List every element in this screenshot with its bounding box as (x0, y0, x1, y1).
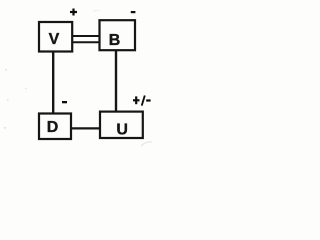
wire D to U (71, 127, 100, 129)
svg-text:D: D (47, 119, 59, 136)
block V (39, 22, 72, 52)
double wire V to B (upper) (72, 35, 100, 37)
plus-minus label at U (133, 95, 151, 106)
double wire V to B (lower) (72, 41, 100, 43)
svg-text:B: B (109, 32, 121, 49)
block D (39, 114, 71, 140)
svg-text:V: V (49, 31, 60, 48)
minus label at B (131, 11, 136, 13)
minus label at D (62, 101, 67, 103)
wire B to U (115, 50, 117, 111)
block B (100, 20, 136, 50)
plus label at V (70, 9, 77, 16)
faint scan specks left edge (4, 69, 26, 129)
faint scan smudge top middle (93, 10, 99, 11)
block U (100, 112, 143, 139)
faint scan artifact bottom right (141, 142, 152, 146)
svg-text:U: U (116, 121, 128, 138)
wire V to D (52, 52, 54, 114)
